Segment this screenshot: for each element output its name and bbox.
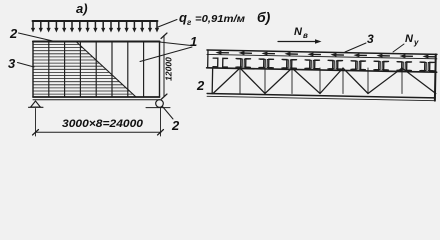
- svg-text:2: 2: [9, 26, 18, 41]
- roller ground line: [146, 107, 170, 109]
- svg-text:в: в: [303, 31, 308, 40]
- bottom dimension line: [36, 131, 162, 133]
- load arrowheads: [31, 28, 159, 33]
- leader to label 2 bottom: [163, 107, 174, 120]
- leader 3 truss: [345, 43, 366, 52]
- leader Nu: [393, 44, 404, 52]
- dim slash bottom: [161, 94, 167, 100]
- svg-text:б): б): [257, 9, 271, 25]
- svg-text:q: q: [179, 10, 187, 25]
- svg-text:2: 2: [196, 78, 205, 93]
- svg-text:3: 3: [8, 56, 16, 71]
- svg-text:2: 2: [171, 118, 180, 133]
- left band end cap: [207, 50, 209, 68]
- hatch zone boundary diagonal: [76, 42, 136, 98]
- dimension extension right: [160, 108, 162, 137]
- rib lines (verticals): [49, 42, 144, 98]
- svg-text:у: у: [413, 38, 419, 47]
- leader 2 truss a: [203, 69, 210, 80]
- bottom chord: [207, 94, 435, 98]
- svg-text:г: г: [187, 18, 192, 27]
- dim slash left: [33, 130, 39, 136]
- left end post: [211, 68, 213, 94]
- slab rectangle outline: [33, 40, 160, 42]
- leader 2 truss b: [206, 81, 215, 94]
- truss top chord: [207, 68, 437, 72]
- leader to q label: [158, 20, 177, 28]
- dimension extension left: [35, 109, 37, 137]
- bottom chord second line: [207, 96, 435, 100]
- roller support circle: [156, 100, 164, 108]
- channel pairs: [213, 58, 435, 71]
- leader 2 to corner: [19, 33, 58, 42]
- dim slash top: [161, 33, 167, 39]
- svg-text:3: 3: [367, 32, 374, 46]
- crane beam top flange line: [207, 50, 437, 54]
- horizontal hatching: [33, 45, 133, 95]
- svg-text:=0,91т/м: =0,91т/м: [195, 13, 245, 25]
- svg-text:а): а): [76, 1, 88, 16]
- Nv arrow: [278, 41, 318, 43]
- svg-text:12000: 12000: [164, 57, 174, 81]
- bottom second line: [33, 99, 160, 101]
- svg-text:3000×8=24000: 3000×8=24000: [62, 118, 144, 130]
- vertical dimension line 12000: [163, 36, 165, 97]
- right end post: [434, 54, 437, 100]
- truss verticals: [240, 68, 402, 94]
- q load value label: [179, 10, 245, 27]
- truss diagonals: [213, 68, 436, 94]
- small rail clamp arrows: [215, 50, 436, 58]
- leader 1a: [160, 42, 192, 46]
- distributed load band top line: [33, 20, 158, 22]
- pinned support: [31, 101, 41, 107]
- distributed load arrows: [33, 21, 157, 30]
- dim slash right: [158, 130, 164, 136]
- brake truss group: [206, 50, 437, 101]
- svg-text:N: N: [405, 33, 414, 45]
- svg-text:N: N: [294, 26, 303, 38]
- flange second line: [207, 54, 437, 58]
- leader 1b: [140, 47, 192, 62]
- leader 3: [18, 63, 35, 68]
